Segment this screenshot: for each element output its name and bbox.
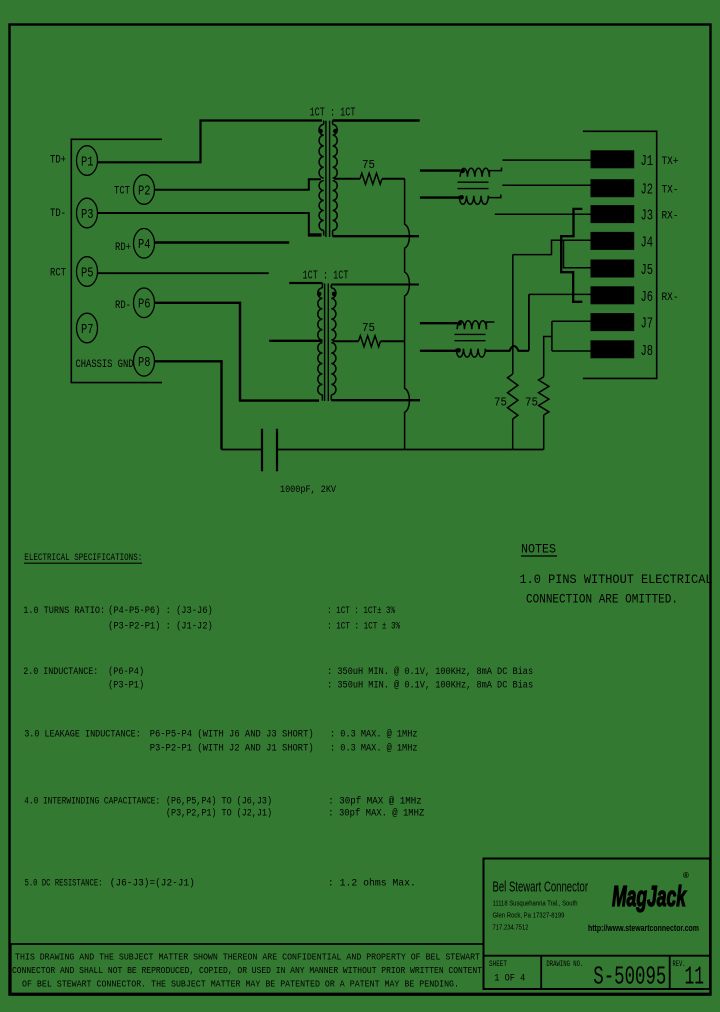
wire R4 bottom to rail <box>543 415 545 450</box>
pin P4 <box>134 229 155 259</box>
svg-text:P6: P6 <box>138 298 151 313</box>
L2 phase dot top <box>457 321 462 326</box>
svg-text:1CT : 1CT: 1CT : 1CT <box>303 270 349 283</box>
contact J3 <box>591 205 635 223</box>
wire J2 <box>502 184 590 186</box>
T1 phase dot secondary <box>333 129 338 134</box>
wire J7 <box>552 320 591 322</box>
wire T2 primary center tap <box>269 340 322 342</box>
wire P3 to T1 primary bottom <box>98 213 322 236</box>
svg-text:RD-: RD- <box>115 300 131 312</box>
wire P8 chassis gnd to capacitor <box>155 361 222 449</box>
contact J8 <box>591 340 635 358</box>
wire capacitor left lead <box>222 449 263 451</box>
pin P6 <box>134 288 155 318</box>
svg-text:P3-P2-P1 (WITH J2 AND J1 SHORT: P3-P2-P1 (WITH J2 AND J1 SHORT) <box>150 743 314 755</box>
choke L1 bottom winding <box>420 196 459 198</box>
svg-text:P2: P2 <box>138 184 151 199</box>
svg-text:RD+: RD+ <box>115 242 131 254</box>
resistor R1 75 ohm <box>360 173 382 184</box>
svg-text:J4: J4 <box>641 235 654 251</box>
svg-text:RX-: RX- <box>662 211 679 223</box>
svg-text:P3: P3 <box>81 208 94 223</box>
contact J1 <box>591 150 635 168</box>
pin P5 <box>77 257 98 287</box>
svg-text:5.0 DC RESISTANCE:: 5.0 DC RESISTANCE: <box>25 878 103 890</box>
svg-text:RX-: RX- <box>662 292 679 304</box>
resistor R4 75 ohm <box>539 377 549 415</box>
svg-text:CHASSIS GND: CHASSIS GND <box>76 359 134 371</box>
svg-text:TX-: TX- <box>662 185 679 197</box>
capacitor C1 plates <box>261 429 263 472</box>
wire termination dropper with hops <box>405 179 410 450</box>
transformer T1 <box>319 124 324 178</box>
wire J6 riser <box>528 294 530 350</box>
wire P6 to T2 primary bottom <box>155 303 320 401</box>
svg-text:1000pF, 2KV: 1000pF, 2KV <box>280 484 337 496</box>
bottom border emphasis <box>9 993 711 996</box>
wire J5 branch <box>564 240 591 268</box>
svg-text:S-50095: S-50095 <box>593 962 666 992</box>
choke L1 top winding <box>420 169 460 171</box>
svg-text:: 350uH MIN. @ 0.1V, 100KHz,: : 350uH MIN. @ 0.1V, 100KHz, 8mA DC Bias <box>327 680 533 692</box>
svg-text:J5: J5 <box>641 263 654 279</box>
svg-text:P8: P8 <box>138 356 151 371</box>
svg-text:TCT: TCT <box>114 186 130 198</box>
svg-text:4.0 INTERWINDING CAPACITANCE:: 4.0 INTERWINDING CAPACITANCE: <box>24 796 160 808</box>
wire J4/J5 feed riser down to R3 <box>512 255 514 374</box>
svg-text:P5: P5 <box>81 266 94 281</box>
pin P3 <box>77 198 98 228</box>
svg-text:J3: J3 <box>641 209 654 225</box>
svg-text:75: 75 <box>362 321 375 335</box>
svg-text:P1: P1 <box>81 155 94 170</box>
svg-text:(P4-P5-P6) : (J3-J6): (P4-P5-P6) : (J3-J6) <box>108 605 213 617</box>
wire R1 to dropper <box>382 178 405 180</box>
svg-text:3.0 LEAKAGE INDUCTANCE:: 3.0 LEAKAGE INDUCTANCE: <box>24 729 141 741</box>
svg-text:75: 75 <box>525 396 538 410</box>
svg-text:P7: P7 <box>81 323 94 338</box>
contact J7 <box>591 313 635 331</box>
svg-text:(P6,P5,P4) TO (J6,J3): (P6,P5,P4) TO (J6,J3) <box>166 796 272 808</box>
wire P5 (RCT) stub <box>98 272 269 274</box>
wire T2 secondary top <box>331 284 419 286</box>
svg-text:J8: J8 <box>641 344 654 360</box>
choke L2 top winding <box>420 322 457 324</box>
svg-text:P4: P4 <box>138 238 151 253</box>
svg-text:1.0 TURNS RATIO:: 1.0 TURNS RATIO: <box>23 605 105 617</box>
L1 phase dot bottom <box>459 195 464 200</box>
wire J6 <box>529 293 591 295</box>
svg-text:: 1.2 ohms Max.: : 1.2 ohms Max. <box>328 878 416 890</box>
svg-text:Bel Stewart Connector: Bel Stewart Connector <box>493 880 589 896</box>
svg-text:J6: J6 <box>641 290 654 306</box>
svg-text:SHEET: SHEET <box>489 960 507 969</box>
svg-text:J7: J7 <box>641 317 654 333</box>
T2 phase dot secondary <box>332 292 337 297</box>
wire capacitor to termination rail <box>277 449 544 451</box>
svg-text:(P6-P4): (P6-P4) <box>108 666 144 678</box>
wire T1 secondary center tap to R1 <box>334 178 360 180</box>
T2 phase dot primary <box>317 292 322 297</box>
wire P4 toward T2 primary top <box>155 241 290 243</box>
svg-text:J2: J2 <box>641 183 654 199</box>
wire J7/J8 to R4 <box>544 337 552 377</box>
wire J4/J5 feed <box>513 240 591 254</box>
svg-text:MagJack: MagJack <box>612 881 687 913</box>
svg-text:1CT : 1CT: 1CT : 1CT <box>310 107 356 120</box>
pin P7 <box>77 313 98 343</box>
svg-text:717.234.7512: 717.234.7512 <box>493 923 529 932</box>
wire J7/J8 tie <box>551 321 553 351</box>
choke L2 core <box>455 333 486 335</box>
contact J2 <box>591 179 635 197</box>
contact J5 <box>591 260 635 278</box>
svg-text:THIS DRAWING AND THE SUBJECT M: THIS DRAWING AND THE SUBJECT MATTER SHOW… <box>15 953 480 963</box>
svg-text:: 0.3 MAX. @ 1MHz: : 0.3 MAX. @ 1MHz <box>330 743 418 755</box>
svg-text:®: ® <box>683 871 689 880</box>
svg-text:(J6-J3)=(J2-J1): (J6-J3)=(J2-J1) <box>110 878 195 890</box>
choke L1 core <box>458 181 489 183</box>
T1 phase dot primary <box>318 129 323 134</box>
wire R2 to dropper <box>381 340 405 342</box>
svg-text:75: 75 <box>494 396 507 410</box>
connector block outline <box>583 131 657 378</box>
disclaimer box <box>11 943 484 945</box>
contact J6 <box>591 286 635 304</box>
svg-text:75: 75 <box>362 158 375 172</box>
pin P8 <box>134 347 155 377</box>
wire T2 secondary center tap to R2 <box>333 340 359 342</box>
wire J3 <box>495 213 591 215</box>
wire P2 to T1 primary center tap <box>155 179 322 190</box>
svg-text:: 30pf MAX @ 1MHz: : 30pf MAX @ 1MHz <box>328 796 421 808</box>
svg-text:(P3-P1): (P3-P1) <box>108 680 144 692</box>
svg-text:2.0 INDUCTANCE:: 2.0 INDUCTANCE: <box>23 666 98 678</box>
pin P1 <box>77 146 98 176</box>
svg-text:(P3-P2-P1) : (J1-J2): (P3-P2-P1) : (J1-J2) <box>108 621 213 633</box>
svg-text:ELECTRICAL SPECIFICATIONS:: ELECTRICAL SPECIFICATIONS: <box>24 552 142 564</box>
title block frame <box>484 859 711 990</box>
svg-text:CONNECTION ARE OMITTED.: CONNECTION ARE OMITTED. <box>526 593 678 607</box>
L1 phase dot top <box>460 169 465 174</box>
pin header outline <box>71 139 162 382</box>
svg-text:Glen Rock, Pa 17327-8199: Glen Rock, Pa 17327-8199 <box>493 911 565 920</box>
wire L2 bottom to J6 riser (with hop) <box>485 346 529 351</box>
svg-text:TD+: TD+ <box>50 155 66 167</box>
svg-text:http://www.stewartconnector.co: http://www.stewartconnector.com <box>588 923 699 933</box>
svg-text:RCT: RCT <box>50 268 66 280</box>
svg-text:TD-: TD- <box>50 208 66 220</box>
resistor R3 75 ohm <box>508 374 518 419</box>
svg-text:OF BEL STEWART CONNECTOR. THE: OF BEL STEWART CONNECTOR. THE SUBJECT MA… <box>22 980 459 990</box>
wire T2 primary top <box>289 282 322 284</box>
L2 phase dot bottom <box>456 348 461 353</box>
crossover wire J3-J6 <box>561 209 582 302</box>
pin P2 <box>134 175 155 205</box>
svg-text:11: 11 <box>685 962 705 992</box>
svg-text:J1: J1 <box>641 154 654 170</box>
svg-text:CONNECTOR AND SHALL NOT BE REP: CONNECTOR AND SHALL NOT BE REPRODUCED, C… <box>12 966 482 976</box>
wire T2 secondary bottom <box>331 399 420 401</box>
wire P1 to T1 primary top <box>98 121 323 163</box>
svg-text:DRAWING NO.: DRAWING NO. <box>546 960 583 969</box>
wire J8 <box>552 350 591 352</box>
wire T1 secondary top <box>333 119 420 121</box>
wire R3 bottom <box>512 419 514 450</box>
svg-text:: 350uH MIN. @ 0.1V, 100KHz,: : 350uH MIN. @ 0.1V, 100KHz, 8mA DC Bias <box>327 666 533 678</box>
svg-text:11118 Susquehanna Tral., South: 11118 Susquehanna Tral., South <box>493 899 578 908</box>
svg-text:P6-P5-P4 (WITH J6 AND J3 SHORT: P6-P5-P4 (WITH J6 AND J3 SHORT) <box>150 729 314 741</box>
svg-text:: 30pf MAX. @ 1MHZ: : 30pf MAX. @ 1MHZ <box>328 808 424 820</box>
contact J4 <box>591 232 635 250</box>
wire T1 secondary bottom <box>333 235 419 237</box>
svg-text:1 OF 4: 1 OF 4 <box>494 974 525 985</box>
svg-text:: 1CT : 1CT± 3%: : 1CT : 1CT± 3% <box>327 605 396 617</box>
transformer T2 <box>318 288 323 340</box>
svg-text:NOTES: NOTES <box>521 543 556 557</box>
choke L2 bottom winding <box>420 350 456 352</box>
svg-text:: 1CT : 1CT ± 3%: : 1CT : 1CT ± 3% <box>327 621 400 633</box>
svg-text:TX+: TX+ <box>662 156 679 168</box>
resistor R2 75 ohm <box>359 336 381 347</box>
svg-text:1.0 PINS WITHOUT ELECTRICAL: 1.0 PINS WITHOUT ELECTRICAL <box>520 573 713 587</box>
wire J1 <box>503 159 591 161</box>
svg-text:: 0.3 MAX. @ 1MHz: : 0.3 MAX. @ 1MHz <box>330 729 418 741</box>
svg-text:(P3,P2,P1) TO (J2,J1): (P3,P2,P1) TO (J2,J1) <box>166 808 272 820</box>
